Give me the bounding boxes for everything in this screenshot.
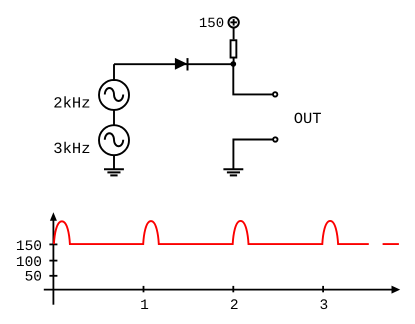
wire supply to resistor <box>233 28 235 39</box>
wire resistor to node <box>233 59 235 65</box>
AC source V2 3kHz <box>99 125 129 155</box>
AC source V1 2kHz <box>99 80 129 110</box>
power supply symbol +150 <box>228 17 238 27</box>
resistor R1 <box>231 40 237 57</box>
ground (output) <box>223 169 243 175</box>
wire sources to diode to node <box>114 63 234 65</box>
svg-text:150: 150 <box>16 239 42 255</box>
svg-text:50: 50 <box>25 270 42 286</box>
y tick 50 <box>49 275 57 277</box>
x-axis arrowhead <box>392 286 401 294</box>
waveform pulse train <box>54 221 369 244</box>
terminal OUT- <box>273 137 277 141</box>
y tick 100 <box>49 260 57 262</box>
svg-text:2kHz: 2kHz <box>53 95 90 113</box>
y tick 150 <box>49 243 57 245</box>
svg-text:3: 3 <box>320 298 329 314</box>
wire V2 to ground <box>113 155 115 170</box>
svg-text:3kHz: 3kHz <box>53 140 90 158</box>
wire V1 to V2 <box>113 109 115 126</box>
svg-text:2: 2 <box>230 298 239 314</box>
y-axis <box>52 219 54 305</box>
terminal OUT+ <box>273 92 277 96</box>
x tick 1 <box>143 286 145 292</box>
svg-text:OUT: OUT <box>294 110 322 128</box>
svg-text:1: 1 <box>140 298 149 314</box>
diode D1 <box>175 58 188 71</box>
graph axes <box>44 212 400 305</box>
x tick 3 <box>322 286 324 292</box>
output waveform (red) <box>54 221 399 244</box>
y-axis arrowhead <box>50 212 57 221</box>
wire down to source V1 <box>113 64 115 81</box>
svg-text:150: 150 <box>199 16 224 32</box>
svg-text:100: 100 <box>16 255 42 271</box>
node junction dot <box>230 61 236 67</box>
wire OUT- terminal to ground <box>233 140 272 170</box>
wire node to OUT+ terminal <box>233 64 272 94</box>
x-axis <box>44 289 393 291</box>
x tick 2 <box>232 286 234 292</box>
waveform continuation dash <box>383 243 399 245</box>
ground (sources) <box>104 169 124 175</box>
